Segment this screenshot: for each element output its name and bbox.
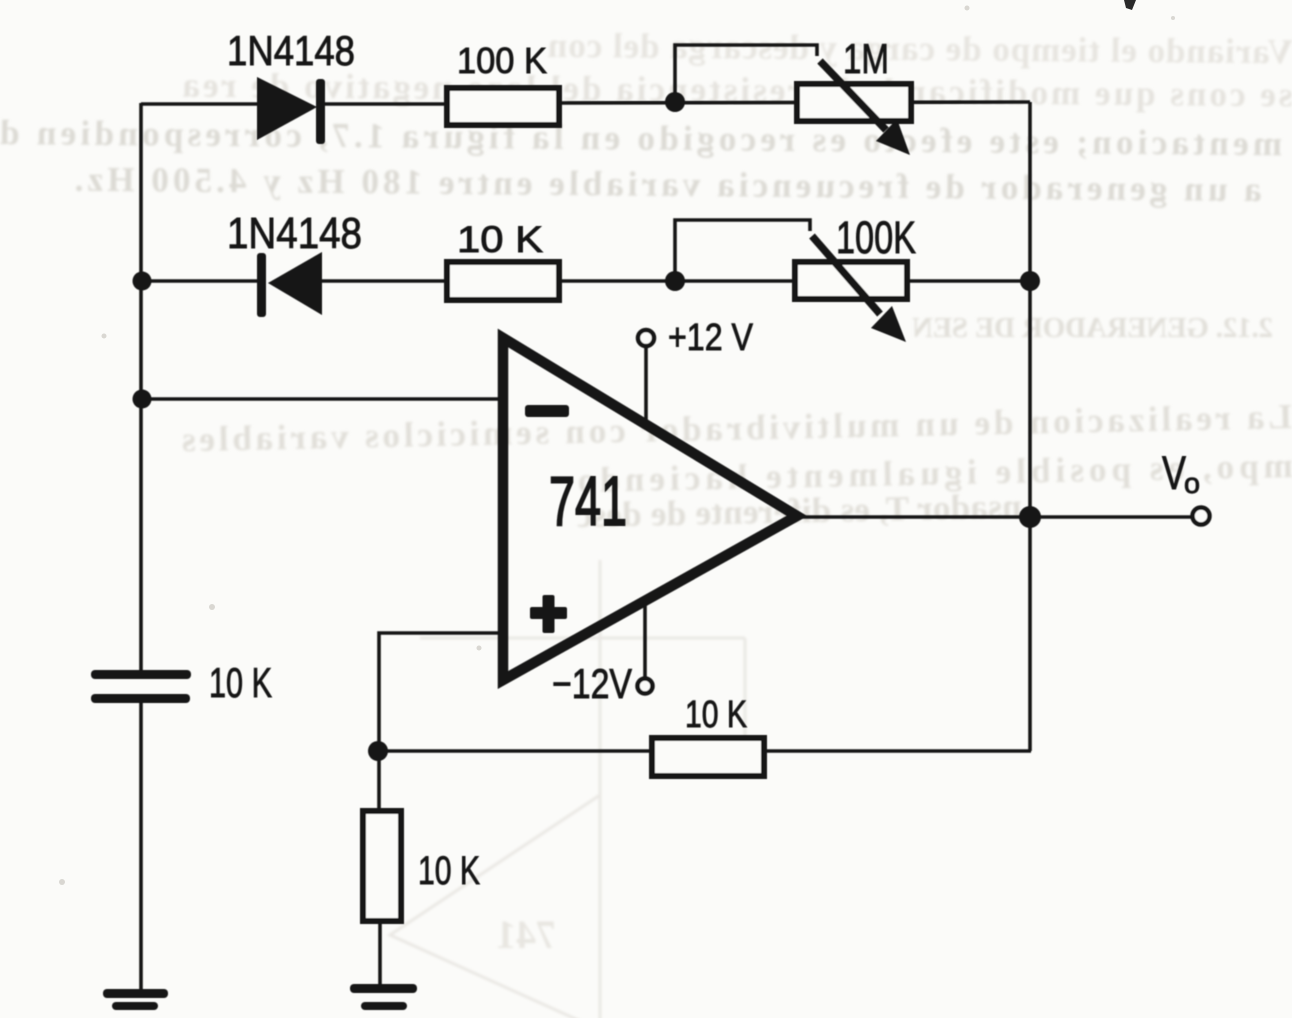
svg-text:741: 741 — [496, 912, 556, 957]
svg-text:+12 V: +12 V — [668, 317, 754, 359]
svg-text:100 K: 100 K — [457, 40, 547, 81]
svg-text:741: 741 — [549, 462, 627, 540]
svg-text:1N4148: 1N4148 — [227, 209, 362, 258]
svg-text:100K: 100K — [836, 212, 916, 263]
svg-text:1N4148: 1N4148 — [227, 27, 355, 74]
svg-text:10 K: 10 K — [418, 849, 480, 893]
svg-text:o: o — [1184, 468, 1200, 500]
svg-text:1M: 1M — [843, 35, 889, 82]
svg-text:V: V — [1162, 446, 1186, 499]
svg-text:10 K: 10 K — [209, 659, 272, 706]
svg-text:Variando el tiempo de carga y: Variando el tiempo de carga y descarga d… — [548, 26, 1292, 71]
svg-text:10 K: 10 K — [685, 694, 747, 736]
svg-text:10 K: 10 K — [457, 219, 543, 260]
svg-text:2.12. GENERADOR DE SEN: 2.12. GENERADOR DE SEN — [912, 312, 1273, 344]
svg-text:−12V: −12V — [552, 660, 632, 707]
